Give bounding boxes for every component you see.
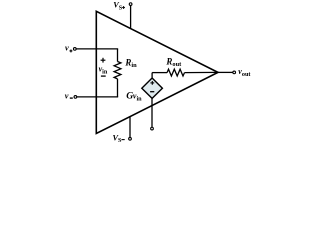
resistor Rout zigzag	[167, 69, 184, 76]
node vout output	[218, 67, 251, 78]
wire Rin top lead	[117, 49, 119, 62]
svg-text:VS: VS	[113, 134, 123, 145]
terminal vout open circle	[233, 71, 236, 74]
wire v- input lead	[77, 96, 118, 98]
node v- inverting input	[65, 92, 118, 101]
node VS+ positive supply terminal	[113, 1, 132, 28]
label Gvin minus inside	[150, 91, 154, 93]
wire VS- lead	[129, 116, 131, 137]
wire Rout left lead	[152, 72, 167, 74]
terminal v- open circle	[74, 96, 77, 99]
resistor Rin input resistance	[114, 49, 137, 97]
wire VS+ lead	[130, 5, 132, 28]
terminal Gvin bottom open circle	[151, 127, 154, 130]
svg-text:v: v	[65, 92, 69, 101]
resistor Rout output resistance	[152, 57, 218, 77]
wire v+ input lead	[76, 48, 118, 50]
svg-text:VS: VS	[113, 1, 123, 12]
svg-text:vout: vout	[238, 67, 251, 78]
wire Gvin top lead	[151, 73, 153, 79]
node v+ non-inverting input	[65, 44, 118, 53]
wire Rout right lead to apex	[185, 71, 219, 73]
op-amp body triangle	[96, 11, 218, 133]
label vin polarity plus	[101, 58, 106, 63]
label Gvin plus inside	[150, 82, 154, 84]
dependent source Gvin diamond	[126, 73, 162, 130]
node VS- negative supply terminal	[113, 116, 132, 144]
terminal v+ open circle	[73, 48, 76, 51]
terminal VS- open circle	[129, 137, 132, 140]
terminal VS+ open circle	[129, 3, 132, 6]
wire vout lead	[218, 71, 233, 73]
label vin polarity minus	[101, 75, 106, 77]
source Gvin diamond body	[142, 78, 163, 98]
wire Gvin bottom lead	[151, 98, 153, 127]
resistor Rin zigzag	[114, 62, 121, 79]
wire Rin bottom lead	[117, 79, 119, 97]
svg-text:v: v	[65, 44, 69, 53]
